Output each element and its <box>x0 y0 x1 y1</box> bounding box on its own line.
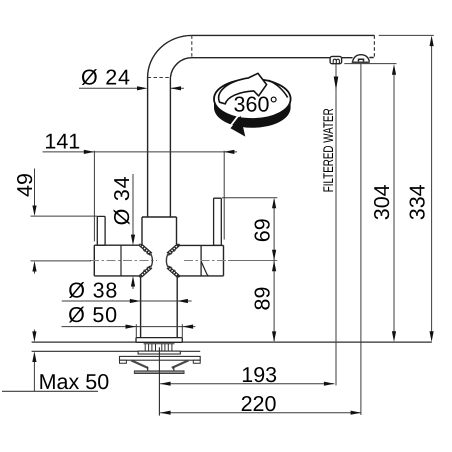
white rotation arrow <box>219 73 267 104</box>
svg-text:304: 304 <box>370 184 394 220</box>
handle axis center line <box>90 260 157 262</box>
bottom mounting nut plate <box>134 371 184 374</box>
struts <box>131 360 188 368</box>
countertop line <box>32 341 432 343</box>
spout end dashed edge <box>373 35 375 57</box>
dimension Ø34 <box>110 174 135 289</box>
svg-text:360°: 360° <box>234 93 278 117</box>
svg-text:FILTERED WATER: FILTERED WATER <box>320 108 336 192</box>
right handle barrel <box>178 245 224 276</box>
right handle seam <box>200 245 202 276</box>
dimension Ø24 <box>79 66 184 91</box>
wire spout outer contour (vertical pipe left edge + bend + top line) <box>148 35 375 217</box>
left cone hatched band bottom <box>139 266 152 277</box>
svg-text:69: 69 <box>251 218 275 242</box>
right handle lever <box>214 198 222 245</box>
inner ring edge arc (right wedge) <box>269 80 288 97</box>
svg-text:141: 141 <box>44 130 80 154</box>
dimension 220 <box>160 392 361 416</box>
svg-text:193: 193 <box>241 363 277 387</box>
svg-text:Max 50: Max 50 <box>39 370 110 394</box>
aerator center leader line <box>360 63 362 415</box>
left cone dashed marks <box>143 250 149 271</box>
left cone sphere arc <box>151 254 153 268</box>
dimension Ø50 <box>62 303 196 337</box>
svg-text:49: 49 <box>13 173 37 197</box>
left handle lever <box>97 216 105 245</box>
dimension Ø38 <box>62 278 192 303</box>
svg-text:89: 89 <box>251 287 275 311</box>
wire spout inner contour (pipe right edge + inner bend + bottom line) <box>170 58 330 217</box>
ring top <box>214 79 291 119</box>
right handle lever diagonal edge <box>201 261 208 275</box>
dimension 304 <box>370 64 396 342</box>
collar sides <box>148 367 174 371</box>
right cone dashed marks <box>169 250 175 271</box>
svg-text:Ø 34: Ø 34 <box>110 176 134 226</box>
top extension line for 334 <box>379 34 434 36</box>
dimension Max 50 <box>2 330 109 394</box>
black band arrowhead <box>231 116 246 137</box>
svg-text:334: 334 <box>405 184 429 220</box>
left cone hatched band top <box>139 244 152 255</box>
counter underside line <box>32 350 201 352</box>
right cone hatched band bottom <box>167 266 180 277</box>
left handle barrel <box>94 245 140 276</box>
dimension 141 <box>43 130 238 242</box>
body upper column sides <box>142 217 177 244</box>
aerator reference extension line <box>344 63 396 65</box>
dimension 69 / 89 <box>222 198 277 342</box>
filtered water nozzle <box>330 56 342 63</box>
body upper column shoulder <box>142 216 177 218</box>
dimension 49 <box>13 169 97 274</box>
threaded shank <box>144 344 175 351</box>
aerator (main outlet) <box>352 55 370 63</box>
bend tangent dashed line (top run) <box>191 35 193 57</box>
left handle seam <box>120 245 122 276</box>
notch between band and arrowhead <box>229 114 239 128</box>
svg-text:Ø 50: Ø 50 <box>68 303 118 327</box>
ring black side band <box>214 99 291 128</box>
dimension 193 <box>160 363 335 387</box>
svg-text:Ø 24: Ø 24 <box>81 66 131 90</box>
washer under counter <box>138 351 180 354</box>
dimension 334 <box>405 36 433 342</box>
flange end lips <box>120 360 201 363</box>
360 degree rotation symbol <box>214 73 291 136</box>
svg-text:Ø 38: Ø 38 <box>68 278 118 302</box>
base plate <box>136 338 182 343</box>
filtered water leader line with flow arrow <box>320 64 339 386</box>
faucet center axis extension <box>158 347 160 415</box>
right cone sphere arc <box>166 254 168 268</box>
lower column (Ø38) sides <box>141 276 178 337</box>
wire spout bottom segments near nozzles <box>342 57 374 59</box>
mounting flange <box>120 356 201 360</box>
bend tangent dashed line (pipe) <box>148 77 171 79</box>
right cone hatched band top <box>167 244 180 255</box>
